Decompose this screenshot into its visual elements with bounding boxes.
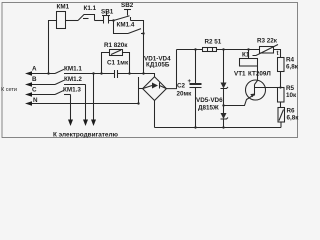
contact KM1.4 bbox=[128, 29, 141, 34]
node rail zener bbox=[222, 126, 224, 128]
svg-text:КМ1.3: КМ1.3 bbox=[63, 87, 81, 94]
wire N to bridge left corner bbox=[138, 77, 140, 104]
wire R5 to R6 bbox=[280, 102, 282, 108]
zener VD6 bbox=[223, 106, 225, 114]
svg-text:А: А bbox=[32, 66, 37, 73]
node KM1.4 right bbox=[142, 32, 144, 34]
node zener top bbox=[222, 48, 224, 50]
node SB1/SB2/KM1.4 bbox=[112, 19, 114, 21]
collector wire from K1 bbox=[255, 66, 258, 85]
capacitor C2 20uk bbox=[195, 50, 197, 84]
svg-text:VD5-VD6: VD5-VD6 bbox=[196, 97, 223, 104]
node N riser bbox=[137, 102, 139, 104]
wire control drop bbox=[143, 34, 145, 74]
wire SB2 to corner bbox=[131, 21, 144, 34]
node C2 top bbox=[194, 48, 196, 50]
svg-text:Д815Ж: Д815Ж bbox=[198, 105, 219, 112]
node R1 right bbox=[128, 72, 130, 74]
svg-text:VT1: VT1 bbox=[234, 71, 246, 78]
wire motor drop C bbox=[70, 95, 72, 122]
svg-text:R1 820к: R1 820к bbox=[104, 42, 128, 49]
svg-text:КМ1.2: КМ1.2 bbox=[64, 76, 82, 83]
svg-text:К1: К1 bbox=[242, 52, 250, 59]
resistor R2 51 bbox=[203, 48, 217, 52]
svg-text:КД105Б: КД105Б bbox=[146, 62, 170, 69]
node zener mid / emitter bbox=[222, 104, 224, 106]
wire coil left down to phase A bbox=[49, 21, 57, 74]
contact KM1.3 bbox=[55, 90, 64, 94]
base bar bbox=[254, 85, 256, 96]
svg-text:К1.1: К1.1 bbox=[84, 5, 97, 12]
bottom rail bbox=[155, 127, 282, 129]
svg-text:6,8к: 6,8к bbox=[287, 115, 300, 122]
wire R3 right to R4 bbox=[274, 50, 281, 58]
border frame bbox=[2, 3, 298, 138]
svg-text:R6: R6 bbox=[287, 108, 296, 115]
wire KM1.4 branch left bbox=[114, 21, 129, 34]
wire R4 to R5 bbox=[280, 72, 282, 88]
resistor R6 6.8k bbox=[278, 108, 285, 123]
contact KM1.1 bbox=[55, 69, 64, 73]
svg-text:С1 1мк: С1 1мк bbox=[107, 60, 129, 67]
node base junction bbox=[279, 86, 281, 88]
svg-text:R3 22к: R3 22к bbox=[257, 38, 278, 45]
svg-text:R4: R4 bbox=[286, 56, 295, 63]
wire bridge bottom to rail bbox=[154, 101, 156, 128]
svg-text:КТ209Л: КТ209Л bbox=[248, 71, 271, 78]
node K1 feed bbox=[247, 48, 249, 50]
svg-text:SB1: SB1 bbox=[101, 9, 114, 16]
svg-text:R5: R5 bbox=[286, 85, 295, 92]
svg-text:SB2: SB2 bbox=[121, 2, 134, 9]
svg-text:КМ1.1: КМ1.1 bbox=[64, 66, 82, 73]
svg-text:10к: 10к bbox=[286, 92, 297, 99]
svg-text:6,8к: 6,8к bbox=[286, 64, 299, 71]
wire motor drop A bbox=[93, 74, 95, 122]
wire C1 right to bridge bbox=[118, 74, 155, 77]
resistor R4 6.8k bbox=[278, 58, 285, 72]
arrow neutral N bbox=[30, 103, 139, 105]
wire bridge plus up to rail bbox=[166, 50, 176, 89]
svg-text:К электродвигателю: К электродвигателю bbox=[53, 132, 118, 139]
svg-text:R2 51: R2 51 bbox=[205, 39, 222, 46]
arrow phase A bbox=[30, 73, 55, 75]
wire rail right of R2 bbox=[217, 49, 260, 51]
svg-text:t: t bbox=[277, 51, 279, 57]
node rail C2 bbox=[194, 126, 196, 128]
svg-text:К сети: К сети bbox=[1, 87, 17, 93]
wire R6 to rail bbox=[280, 122, 282, 128]
contact K1.1 bbox=[78, 15, 95, 21]
emitter wire with arrow bbox=[224, 95, 255, 106]
wire SB1 to node bbox=[109, 20, 114, 22]
arrow phase B bbox=[30, 84, 55, 86]
zener VD5 bbox=[223, 50, 225, 83]
resistor R1 820k bbox=[102, 53, 110, 74]
node R1 left bbox=[100, 72, 102, 74]
contactor coil KM1 bbox=[57, 12, 66, 29]
node coil-A junction bbox=[47, 72, 49, 74]
resistor R5 10k bbox=[278, 88, 285, 103]
diode inside bridge bbox=[143, 86, 152, 89]
wire motor drop B bbox=[85, 85, 87, 122]
svg-text:В: В bbox=[32, 76, 37, 83]
svg-text:N: N bbox=[33, 97, 38, 104]
relay coil K1 bbox=[240, 59, 258, 67]
pushbutton SB1 bbox=[103, 16, 105, 24]
bridge rectifier VD1-VD4 bbox=[143, 77, 167, 101]
svg-text:С: С bbox=[32, 87, 37, 94]
arrow phase C bbox=[30, 94, 55, 96]
transistor VT1 KT209L bbox=[246, 80, 266, 100]
wire K1.1 to SB1 bbox=[95, 20, 104, 22]
node A motor tap bbox=[92, 72, 94, 74]
thermistor R3 22k bbox=[260, 47, 274, 54]
pushbutton SB2 bbox=[114, 16, 130, 21]
svg-text:КМ1: КМ1 bbox=[57, 4, 70, 11]
wire K1 feed bbox=[248, 50, 250, 59]
wire plus rail bbox=[177, 49, 203, 51]
svg-text:20мк: 20мк bbox=[177, 91, 193, 98]
svg-text:С2: С2 bbox=[177, 83, 186, 90]
contact KM1.2 bbox=[55, 80, 64, 84]
svg-text:+: + bbox=[188, 79, 192, 85]
wire coil right bbox=[66, 20, 79, 22]
base wire to R4/R5 bbox=[255, 87, 281, 89]
capacitor C1 1uk bbox=[114, 70, 116, 78]
node control/A-wire bbox=[142, 72, 144, 74]
svg-text:КМ1.4: КМ1.4 bbox=[117, 22, 135, 29]
